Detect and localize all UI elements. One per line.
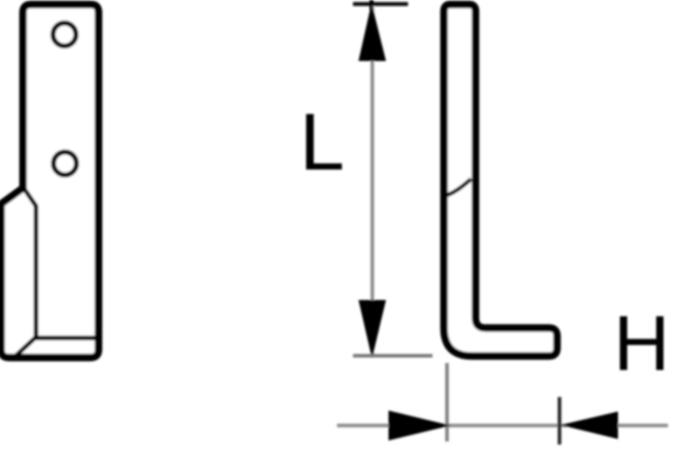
dimension H: right-pointing arrowhead bbox=[389, 411, 451, 441]
hook front view: lower fold line horizontal bbox=[36, 336, 95, 341]
dimension L: vertical dimension line bbox=[371, 6, 375, 355]
dimension L: line overshoot stub at top bbox=[370, 0, 374, 10]
hook side view: bend tangent arc bbox=[446, 179, 471, 196]
hook front view: bend edge (diagonal + vertical fold line) bbox=[23, 187, 36, 337]
dimension H: horizontal dimension line bbox=[337, 424, 668, 428]
svg-text:H: H bbox=[614, 299, 670, 387]
hook side view: L profile bbox=[444, 5, 557, 357]
screw hole top bbox=[53, 23, 76, 46]
hook front view: lower fold diagonal bbox=[15, 337, 36, 357]
svg-text:L: L bbox=[300, 98, 345, 188]
dimension L: top arrowhead bbox=[359, 3, 387, 61]
dimension H: right extension line bbox=[558, 397, 562, 445]
screw hole lower bbox=[54, 152, 77, 175]
hook front view: plate outline bbox=[1, 5, 99, 358]
dimension L: bottom extension line bbox=[353, 354, 433, 358]
dimension L: top extension line bbox=[353, 2, 408, 6]
dimension H: left-pointing arrowhead bbox=[561, 412, 619, 440]
dimension H: left extension line bbox=[445, 363, 449, 442]
dimension L: bottom arrowhead bbox=[359, 300, 387, 359]
